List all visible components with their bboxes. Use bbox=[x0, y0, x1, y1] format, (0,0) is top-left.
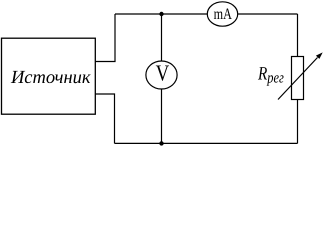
junction node (top) bbox=[159, 12, 163, 16]
label mA bbox=[214, 6, 233, 23]
wire upper terminal of source to top rail bbox=[95, 14, 115, 62]
rheostat arrow bbox=[278, 58, 318, 100]
label Rрег bbox=[257, 63, 284, 86]
resistor Rрег (rheostat body) bbox=[292, 57, 304, 100]
wire voltmeter branch bbox=[161, 14, 163, 143]
voltmeter V bbox=[146, 61, 177, 89]
wire lower terminal of source to bottom rail bbox=[95, 94, 115, 143]
svg-text:mA: mA bbox=[214, 6, 233, 23]
wire resistor to bottom rail bbox=[297, 100, 299, 144]
junction node (bottom) bbox=[159, 141, 163, 145]
source box bbox=[2, 38, 96, 114]
milliammeter mA bbox=[207, 2, 237, 26]
wire right vertical (top rail to resistor) bbox=[297, 14, 299, 57]
svg-text:V: V bbox=[156, 61, 170, 86]
label V bbox=[156, 61, 170, 86]
svg-text:Источник: Источник bbox=[10, 68, 91, 88]
wire bottom rail bbox=[115, 142, 298, 144]
wire top rail bbox=[115, 13, 298, 15]
